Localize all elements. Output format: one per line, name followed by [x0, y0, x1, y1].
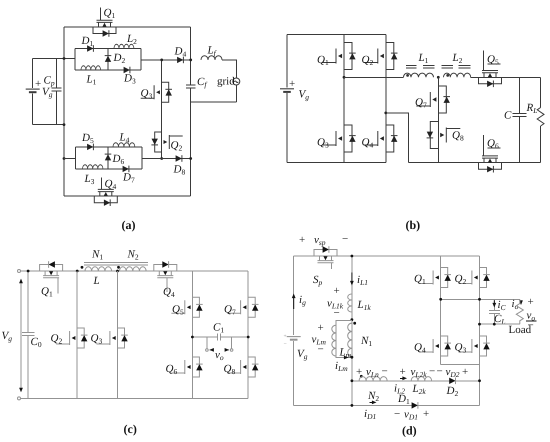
wire: grid loop right lower [235, 85, 237, 102]
wire: Q1 gate stub (c) [57, 278, 59, 294]
capacitor CL plates [489, 310, 500, 313]
svg-text:−: − [334, 307, 340, 319]
diode: Q4 body diode [104, 199, 110, 206]
arrow: iD1 current [369, 401, 374, 403]
node: secondary row left junction [351, 379, 354, 382]
wire: transformer column (d) [351, 256, 353, 405]
core line above N1 N2 (double) [84, 263, 148, 266]
node: N1 polarity dot [81, 266, 84, 269]
wire: grid loop bottom [191, 101, 237, 103]
inductor L4 [113, 143, 135, 147]
wire: bridge leg B [385, 34, 387, 162]
node: middle branch bottom junction [160, 157, 163, 160]
svg-text:+: + [528, 296, 534, 308]
svg-text:L: L [93, 275, 100, 287]
svg-text:+: + [284, 334, 287, 340]
transistor Q3 (b) [322, 125, 352, 152]
resistor: Load [516, 299, 523, 324]
wire: Q3-Q2 middle branch [161, 60, 163, 159]
diode: Q2 body diode (b) [391, 53, 398, 59]
diode: Q3 body diode (d) [483, 343, 490, 349]
node: leg B midpoint [384, 112, 387, 115]
capacitor Cp branch [55, 59, 57, 125]
transistor Q2 [155, 132, 183, 152]
node: D4 output junction [189, 59, 192, 62]
diode D1 (d) [412, 402, 418, 409]
resistor RL [537, 108, 544, 127]
wire: Q4 gate stub (c) [166, 278, 168, 292]
diode D6 [105, 154, 112, 160]
wire: lower network output to D8 node [142, 158, 191, 160]
wire: grid loop top [222, 60, 236, 78]
diode D3 [124, 67, 130, 74]
diode: Q2 body diode (c) [81, 335, 88, 341]
inductor Lf [201, 56, 222, 60]
wire: lower network top path [76, 146, 143, 148]
transistor Q2 (b) [364, 43, 394, 70]
wire: secondary row [352, 380, 480, 382]
wire: bridge mid rail (d) [441, 298, 520, 300]
svg-text:C: C [504, 110, 512, 122]
wire: D6 branch vertical [107, 147, 109, 169]
node: L1-L2 junction [437, 76, 440, 79]
wire: Q5 label underline [487, 63, 500, 65]
node: L2 polarity dot [446, 74, 449, 77]
transistor Q6 [479, 156, 502, 169]
node: N1 top junction [351, 318, 354, 321]
wire: lower network left edge [75, 147, 77, 169]
arrow: vo left [210, 349, 214, 351]
node: bottom rail column junction [351, 404, 354, 407]
transistor Q4 (d) [420, 336, 448, 356]
diode: Q1 body diode (b) [349, 53, 356, 59]
wire: phase B output [386, 113, 409, 163]
terminal: vo left circle [206, 349, 209, 352]
wire: lower network bottom path [76, 168, 143, 170]
diode: Q4 body diode (d) [444, 343, 451, 349]
wire: bridge right leg (d) [479, 256, 481, 405]
wire: right rail (a), gap at Cf [190, 27, 192, 196]
inductor L1 (b) [404, 73, 434, 77]
transistor Q4 (c) [154, 265, 177, 278]
arrow: vo right [225, 349, 229, 351]
wire: bottom right net [409, 162, 541, 164]
battery Vg (a) [26, 89, 40, 92]
core bars above L1 [406, 65, 435, 68]
transistor Q1 (b) [322, 43, 352, 70]
terminal: top left open circle [18, 270, 21, 273]
wire: left rail (d) with battery gap [293, 256, 295, 405]
node: C1 right junction [247, 336, 250, 339]
node: column top junction [351, 255, 354, 258]
diode D4 [177, 57, 183, 64]
svg-text:(b): (b) [406, 218, 421, 232]
node: Q2 branch top junction [76, 270, 79, 273]
wire: CL branch [493, 299, 495, 324]
inductor L2 (b) [444, 73, 471, 77]
AC source grid circle [233, 78, 240, 85]
transistor Q1 (c) [40, 265, 63, 278]
svg-text:+: + [318, 322, 324, 334]
wire: phase A output to L1 [344, 76, 404, 78]
wire: Lm parallel branch [336, 321, 352, 358]
transistor Q8 (c) [227, 357, 255, 377]
node: N1 bottom junction [351, 356, 354, 359]
wire: Q7-Q8 branch [437, 77, 439, 162]
wire: top rail (d) [294, 255, 480, 257]
wire: bottom rail (b) [287, 162, 386, 164]
wire: upper network top path [75, 48, 141, 50]
svg-text:(d): (d) [402, 424, 417, 438]
transistor Q2 (d) [459, 268, 487, 288]
diode: Q5 body diode (c) [196, 304, 203, 310]
node: left rail lower network junction [63, 157, 66, 160]
wire: bottom rail (c) [21, 397, 249, 399]
arrow: iC current [493, 300, 495, 306]
svg-text:−: − [429, 366, 435, 378]
wire: C1 link [192, 336, 248, 338]
wire: H-bridge right leg (c) [247, 271, 249, 398]
arrow: iLm current [344, 356, 349, 360]
inductor L1k [348, 294, 352, 312]
diode: Q7 body diode [443, 97, 450, 103]
terminal: bottom left open circle [18, 397, 21, 400]
svg-text:−: − [284, 342, 287, 348]
svg-text:+: + [299, 234, 305, 246]
wire: Q1 gate stub [99, 7, 101, 20]
wire: upper network left edge [74, 49, 76, 71]
diode: Q1 body diode (d) [444, 275, 451, 281]
node: left rail / Vg top junction [63, 57, 66, 60]
wire: top rail (b) [287, 33, 386, 35]
node: C1 left junction [191, 336, 194, 339]
wire: C0 branch [27, 271, 29, 398]
transistor Q3 (d) [459, 336, 487, 356]
core bars above L2 [441, 65, 470, 68]
wire: Q3 branch [117, 271, 119, 398]
wire: left rail (a) [63, 27, 65, 196]
diode D2 [105, 56, 112, 62]
svg-text:(a): (a) [122, 218, 136, 232]
node: N1-N2 junction with Q3 branch [116, 270, 119, 273]
wire: Vg loop bottom edge (a) [33, 124, 64, 126]
wire: Vg loop top edge (a) [33, 58, 75, 60]
wire: top rail (a) [64, 26, 191, 28]
diode: Q4 body diode (b) [391, 136, 398, 142]
inductor N2 winding (d) [359, 377, 387, 381]
transistor Q2 (c) [56, 328, 84, 348]
svg-text:+: + [35, 78, 41, 90]
capacitor C0 plates [22, 332, 34, 335]
inductor N1 winding (d) [348, 323, 352, 357]
inductor Lm [332, 325, 336, 356]
wire: bridge left leg (d) [440, 256, 442, 364]
transistor Q7 [416, 86, 446, 113]
node: leg A midpoint [343, 76, 346, 79]
svg-text:+: + [289, 78, 295, 90]
transistor Q3 [141, 82, 169, 102]
node: C0 top junction [27, 270, 30, 273]
svg-text:−: − [318, 344, 324, 356]
svg-text:−: − [382, 366, 388, 378]
battery Vg (b) [280, 89, 294, 92]
arrow: iL1 current [351, 273, 353, 285]
transistor Q4 [94, 189, 117, 202]
diode: Q8 body diode (c) [252, 364, 259, 370]
wire: Sp gate stub [331, 263, 333, 269]
battery Vg (d) [287, 337, 301, 340]
diode: Q3 body diode [165, 89, 172, 95]
wire: RL branch with resistor [540, 77, 542, 162]
transistor Q5 (c) [171, 297, 199, 317]
wire: bridge leg A [343, 34, 345, 162]
inductor L2k [411, 377, 431, 381]
node: D8 output junction [189, 157, 192, 160]
svg-text:+: + [423, 408, 429, 420]
diode: Sp body diode [323, 246, 329, 253]
diode D5 [87, 144, 93, 151]
source Vg loop left edge with battery gap (a) [32, 59, 34, 125]
capacitor Cp plates [51, 88, 61, 91]
arrow: iL2 current [400, 377, 405, 379]
inductor L3 [83, 165, 103, 169]
svg-text:+: + [356, 366, 362, 378]
arrow: ig current [293, 295, 295, 309]
capacitor Cf plates [186, 85, 196, 88]
inductor N2 winding [120, 267, 147, 271]
wire: lower network input [64, 158, 76, 160]
node: mid rail right junction [478, 298, 481, 301]
wire: H-bridge left leg (c) [191, 271, 193, 398]
transistor Q6 (c) [171, 357, 199, 377]
node: L1 polarity dot [406, 74, 409, 77]
diode: Q6 body diode (c) [196, 364, 203, 370]
wire: lower network right edge [141, 147, 143, 169]
node: N1 polarity dot [353, 322, 356, 325]
transistor Q8 [430, 122, 460, 149]
diode: Q2 body diode [151, 139, 158, 145]
transistor Q4 (b) [364, 125, 394, 152]
node: left rail / Vg bottom junction [63, 123, 66, 126]
inductor L2 [114, 44, 134, 48]
diode: Q6 body diode [487, 166, 493, 173]
svg-text:+: + [462, 366, 468, 378]
wire: Q5 gate stub [483, 50, 485, 70]
diode: Q1 body diode [103, 30, 109, 37]
diode D2 (d) [449, 378, 455, 385]
transistor Q1 (d) [420, 268, 448, 288]
node: output bottom junctions [478, 323, 481, 326]
diode: Q4 body diode (c) pointing right [162, 261, 168, 268]
wire: bridge bottom rail (d) [441, 363, 480, 365]
svg-text:−: − [394, 408, 400, 420]
wire: vo stubs [207, 337, 232, 349]
diode: Q1 body diode (c) pointing left [49, 261, 55, 268]
wire: left rail (b) with battery gap [286, 34, 288, 162]
diode D8 [176, 155, 182, 162]
source Vg measurement arrow [20, 280, 22, 392]
svg-text:−: − [342, 233, 348, 245]
diode D7 [123, 166, 129, 173]
capacitor C plates (b) [513, 114, 527, 117]
transistor Q5 (b) [479, 71, 502, 84]
wire: bottom rail (d) [294, 404, 480, 406]
wire: D2 branch vertical [107, 49, 109, 71]
diode: Q7 body diode (c) [252, 304, 259, 310]
wire: Q2 branch [76, 271, 78, 398]
wire: C branch (b) [519, 77, 521, 162]
wire: top wire L2 to RL corner [471, 76, 541, 78]
wire: upper network bottom path [75, 69, 141, 71]
diode: Q3 body diode (b) [349, 136, 356, 142]
svg-text:−: − [437, 366, 443, 378]
diode D1 [87, 45, 93, 52]
svg-text:+: + [334, 285, 340, 297]
wire: upper network output to D4 node [141, 59, 191, 61]
wire: bottom rail (a) [64, 195, 191, 197]
diode: Q2 body diode (d) [483, 275, 490, 281]
wire: Q6 label underline [487, 147, 500, 149]
transistor Q3 (c) [97, 328, 125, 348]
svg-text:grid: grid [217, 76, 235, 88]
wire: output bottom link [480, 323, 520, 325]
diode: Q3 body diode (c) [121, 335, 128, 341]
node: middle branch top junction [160, 59, 163, 62]
diode: Q8 body diode [427, 132, 434, 138]
transistor Sp [314, 250, 337, 263]
capacitor C1 plates [217, 333, 220, 340]
wire: top rail (c) [21, 270, 249, 272]
wire: upper network right edge [140, 49, 142, 71]
wire: Q4 gate stub [101, 178, 103, 190]
node: mid rail left junction [439, 298, 442, 301]
svg-text:(c): (c) [124, 422, 137, 436]
inductor L1 [81, 66, 101, 70]
node: secondary row right junction [478, 379, 481, 382]
svg-text:Load: Load [509, 324, 532, 336]
terminal: vo right circle [230, 349, 233, 352]
wire: Q6 gate stub [483, 135, 485, 156]
svg-text:+: + [400, 366, 406, 378]
transistor Q1 [93, 20, 116, 33]
inductor N1 winding [85, 267, 112, 271]
diode: Q5 body diode (b) [487, 81, 493, 88]
transistor Q7 (c) [227, 297, 255, 317]
node: N2 polarity dot (d) [360, 375, 363, 378]
